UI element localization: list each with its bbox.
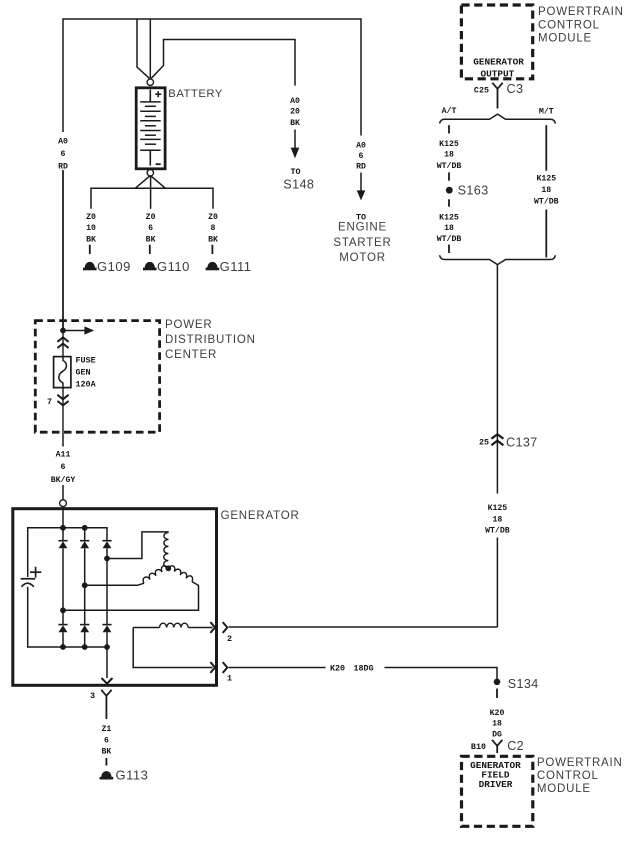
battery positive terminal circle	[147, 79, 153, 85]
svg-text:A/T: A/T	[442, 106, 457, 116]
svg-text:WT/DB: WT/DB	[485, 526, 510, 536]
label POWERTRAIN CONTROL MODULE bottom	[537, 757, 623, 795]
diode rectifier D2 upper	[80, 528, 89, 585]
stator phase A coil	[164, 532, 169, 567]
generator terminal 2	[210, 622, 232, 644]
svg-text:18: 18	[444, 224, 454, 233]
module box POWERTRAIN CONTROL MODULE (generator field driver)	[462, 756, 533, 826]
field winding to terminal 2	[188, 627, 212, 629]
label POWERTRAIN CONTROL MODULE top	[538, 6, 624, 45]
wire label K125 18 WT/DB (M/T)	[534, 175, 559, 207]
label A/T	[442, 106, 457, 116]
wire capacitor to bottom bus	[28, 587, 107, 647]
svg-text:C137: C137	[506, 436, 538, 450]
svg-text:G110: G110	[157, 259, 190, 274]
svg-text:BK: BK	[208, 236, 218, 245]
wire K20 to S134	[385, 668, 498, 680]
svg-text:Z0: Z0	[86, 213, 96, 222]
junction dot in PDC	[60, 328, 66, 334]
stator star point	[165, 565, 171, 571]
battery B+ cell stack	[136, 88, 165, 169]
connector chevrons above fuse	[57, 337, 68, 348]
wire from top bus into power distribution center	[62, 171, 64, 331]
junction dots top bus	[60, 525, 88, 531]
svg-text:BK: BK	[86, 236, 96, 245]
capacitor curved plate	[21, 583, 33, 587]
svg-text:STARTER: STARTER	[333, 237, 391, 249]
svg-text:S148: S148	[283, 177, 314, 191]
connector C3 pin C25	[474, 82, 523, 108]
svg-text:6: 6	[61, 463, 66, 472]
label GENERATOR FIELD DRIVER	[470, 760, 521, 790]
ground G109	[83, 259, 131, 274]
svg-text:K125: K125	[536, 175, 556, 184]
field winding lead top	[133, 627, 159, 629]
field winding left side	[133, 628, 212, 668]
svg-text:120A: 120A	[76, 380, 97, 390]
svg-text:25: 25	[479, 438, 489, 448]
svg-text:6: 6	[61, 150, 66, 159]
wire arrow to engine starter motor	[357, 173, 366, 201]
svg-text:6: 6	[104, 737, 109, 746]
svg-text:GENERATOR: GENERATOR	[221, 510, 300, 522]
svg-text:POWERTRAIN: POWERTRAIN	[538, 6, 624, 18]
wire label K20 18DG	[330, 664, 374, 674]
diode rectifier D3 upper	[102, 541, 111, 559]
svg-text:A0: A0	[58, 138, 68, 147]
svg-text:18: 18	[492, 720, 502, 729]
wire battery negative fanout	[91, 176, 213, 209]
svg-text:MOTOR: MOTOR	[339, 252, 386, 264]
junction dots bottom bus	[60, 644, 110, 650]
ground G111	[206, 259, 252, 274]
wire arrow to S148	[291, 130, 300, 159]
module box GENERATOR	[13, 509, 217, 686]
svg-text:10: 10	[86, 224, 96, 233]
svg-text:RD: RD	[356, 163, 366, 172]
svg-text:RD: RD	[58, 162, 68, 171]
wire generator output B+ internal	[102, 647, 113, 684]
svg-text:Z1: Z1	[101, 725, 111, 734]
svg-text:BK: BK	[146, 236, 156, 245]
brace merge to C137 wire	[440, 255, 556, 264]
svg-text:20: 20	[290, 108, 300, 117]
wire label K125 18 WT/DB (A/T upper)	[437, 140, 462, 171]
arrow feed to other circuits	[63, 326, 94, 334]
svg-text:WT/DB: WT/DB	[437, 234, 462, 244]
wire A/T branch lower segment	[448, 245, 450, 253]
svg-text:FUSE: FUSE	[76, 356, 96, 366]
label TO ENGINE STARTER MOTOR	[333, 213, 391, 265]
svg-text:18: 18	[492, 516, 502, 525]
svg-text:DG: DG	[492, 731, 502, 740]
connector chevrons below fuse	[57, 395, 68, 406]
svg-text:BK: BK	[101, 748, 111, 757]
splice S163	[446, 183, 489, 197]
svg-text:G113: G113	[116, 768, 149, 783]
wire from merge brace down to C137	[496, 265, 498, 494]
svg-text:C3: C3	[507, 82, 524, 96]
svg-text:6: 6	[148, 224, 153, 233]
svg-text:8: 8	[211, 224, 216, 233]
svg-text:K125: K125	[439, 140, 459, 149]
wire label Z1 6 BK	[101, 725, 111, 766]
wire generator terminal 2 to K125 junction	[229, 626, 498, 628]
wire PDC vertical	[62, 331, 64, 433]
svg-text:G109: G109	[97, 259, 131, 274]
svg-text:BK/GY: BK/GY	[51, 475, 76, 485]
generator B+ terminal circle	[60, 500, 67, 507]
wire below S134	[496, 689, 498, 699]
svg-text:ENGINE: ENGINE	[338, 221, 387, 233]
module box POWERTRAIN CONTROL MODULE (generator output)	[461, 5, 532, 79]
module box POWER DISTRIBUTION CENTER	[35, 321, 159, 433]
connector C2 pin B10	[471, 739, 524, 753]
svg-text:DISTRIBUTION: DISTRIBUTION	[165, 334, 256, 346]
label M/T	[539, 106, 554, 116]
wire label K125 18 WT/DB (below C137)	[485, 504, 510, 536]
capacitor positive plate	[21, 567, 42, 579]
svg-text:18DG: 18DG	[354, 664, 374, 674]
svg-text:MODULE: MODULE	[537, 783, 591, 795]
generator ground terminal 3	[90, 690, 112, 719]
wire generator internal top bus	[28, 507, 107, 577]
wire A/T branch segment below S163	[448, 199, 450, 206]
svg-text:B10: B10	[471, 742, 486, 752]
field winding coil	[160, 623, 189, 627]
svg-text:7: 7	[47, 397, 52, 407]
fuse GEN 120A	[54, 357, 71, 388]
wire label Z0 10 BK	[86, 213, 96, 254]
svg-text:C2: C2	[507, 739, 524, 753]
battery negative terminal circle	[147, 170, 153, 176]
wire M/T branch lower segment	[545, 210, 547, 258]
svg-text:DRIVER: DRIVER	[479, 779, 513, 790]
wire label A0 20 BK	[290, 97, 300, 128]
svg-text:BK: BK	[290, 119, 300, 128]
svg-text:GEN: GEN	[76, 368, 91, 378]
svg-text:1: 1	[227, 674, 232, 684]
wire second bus to S148 branch	[151, 40, 295, 86]
wire battery positive drops	[137, 19, 150, 78]
svg-text:TO: TO	[290, 167, 300, 177]
svg-text:G111: G111	[220, 259, 252, 274]
diode rectifier D1 lower	[58, 610, 67, 647]
brace split A/T M/T	[440, 114, 556, 123]
ground G113	[100, 768, 149, 783]
svg-text:6: 6	[359, 152, 364, 161]
diode rectifier D3 lower	[102, 559, 111, 648]
svg-text:A0: A0	[290, 97, 300, 106]
wire below PDC	[62, 432, 64, 499]
splice S134	[494, 677, 539, 691]
wire M/T branch upper segment	[545, 125, 547, 171]
svg-text:S134: S134	[508, 677, 539, 691]
wire generator terminal 1 segment	[229, 667, 326, 669]
svg-text:OUTPUT: OUTPUT	[481, 69, 515, 80]
wire label A0 6 RD left	[58, 138, 68, 172]
label TO S148	[283, 167, 314, 191]
svg-text:C25: C25	[474, 85, 489, 95]
svg-text:M/T: M/T	[539, 106, 554, 116]
svg-text:BATTERY: BATTERY	[168, 88, 223, 100]
wire label K125 18 WT/DB (A/T lower)	[437, 214, 462, 244]
wire label Z0 8 BK	[208, 213, 218, 254]
svg-text:K125: K125	[439, 214, 459, 223]
label BATTERY	[168, 88, 223, 100]
svg-text:3: 3	[90, 691, 95, 701]
svg-text:WT/DB: WT/DB	[534, 197, 559, 207]
svg-text:MODULE: MODULE	[538, 33, 592, 45]
svg-text:S163: S163	[458, 183, 489, 197]
stator phase B lead	[82, 582, 144, 588]
svg-text:K125: K125	[488, 504, 508, 513]
svg-text:Z0: Z0	[208, 213, 218, 222]
svg-text:WT/DB: WT/DB	[437, 161, 462, 171]
generator terminal 1	[210, 662, 232, 683]
stator phase C lead	[60, 582, 198, 614]
label GENERATOR OUTPUT	[473, 57, 524, 80]
wire label K20 18 DG	[490, 709, 505, 740]
label POWER DISTRIBUTION CENTER	[165, 319, 256, 361]
label FUSE GEN 120A	[76, 356, 97, 390]
wire label A0 6 RD right	[356, 142, 366, 172]
svg-text:K20: K20	[330, 664, 345, 674]
svg-text:18: 18	[541, 186, 551, 195]
svg-text:A11: A11	[56, 451, 71, 460]
svg-text:K20: K20	[490, 709, 505, 718]
stator phase C coil	[168, 566, 192, 582]
svg-text:CENTER: CENTER	[165, 349, 217, 361]
fuse pin 7	[47, 397, 52, 407]
wire A/T branch upper segment	[448, 125, 450, 133]
stator phase B coil	[143, 566, 168, 583]
svg-text:POWERTRAIN: POWERTRAIN	[537, 757, 623, 769]
svg-text:POWER: POWER	[165, 319, 212, 331]
svg-text:CONTROL: CONTROL	[537, 770, 599, 782]
wire A/T branch middle segment	[448, 172, 450, 180]
svg-text:CONTROL: CONTROL	[538, 19, 600, 31]
wire K125 down to generator output junction	[496, 538, 498, 628]
stator phase A lead	[104, 532, 169, 561]
wire label A11 6 BK/GY	[51, 451, 76, 486]
diode rectifier D1 upper	[58, 528, 67, 611]
svg-text:18: 18	[444, 151, 454, 160]
connector C137 pin 25	[479, 434, 538, 449]
svg-text:GENERATOR: GENERATOR	[473, 57, 524, 68]
ground G110	[143, 259, 190, 274]
svg-text:A0: A0	[356, 142, 366, 151]
svg-text:2: 2	[227, 634, 232, 644]
wire top bus from battery positive to left branch and starter branch	[63, 19, 361, 331]
diode rectifier D2 lower	[80, 585, 89, 647]
svg-text:Z0: Z0	[146, 213, 156, 222]
wire label Z0 6 BK	[146, 213, 156, 254]
label GENERATOR	[221, 510, 300, 522]
